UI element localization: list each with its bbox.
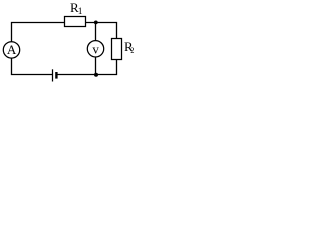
svg-text:A: A [7,42,17,57]
svg-text:1: 1 [78,7,83,17]
svg-text:2: 2 [130,45,134,55]
svg-text:v: v [92,42,99,57]
